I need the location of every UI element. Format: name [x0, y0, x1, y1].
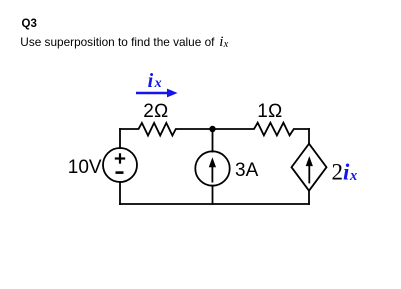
svg-text:2: 2 — [332, 159, 344, 184]
svg-text:x: x — [349, 168, 357, 184]
svg-text:10V: 10V — [68, 157, 102, 178]
svg-text:x: x — [154, 76, 162, 91]
svg-text:2Ω: 2Ω — [143, 101, 168, 122]
svg-text:x: x — [223, 39, 229, 50]
svg-text:Use superposition to find the: Use superposition to find the value of — [20, 35, 215, 49]
svg-text:1Ω: 1Ω — [257, 101, 282, 122]
svg-text:i: i — [343, 159, 350, 184]
svg-text:3A: 3A — [235, 160, 259, 181]
svg-text:i: i — [148, 70, 154, 92]
svg-text:Q3: Q3 — [22, 18, 37, 30]
